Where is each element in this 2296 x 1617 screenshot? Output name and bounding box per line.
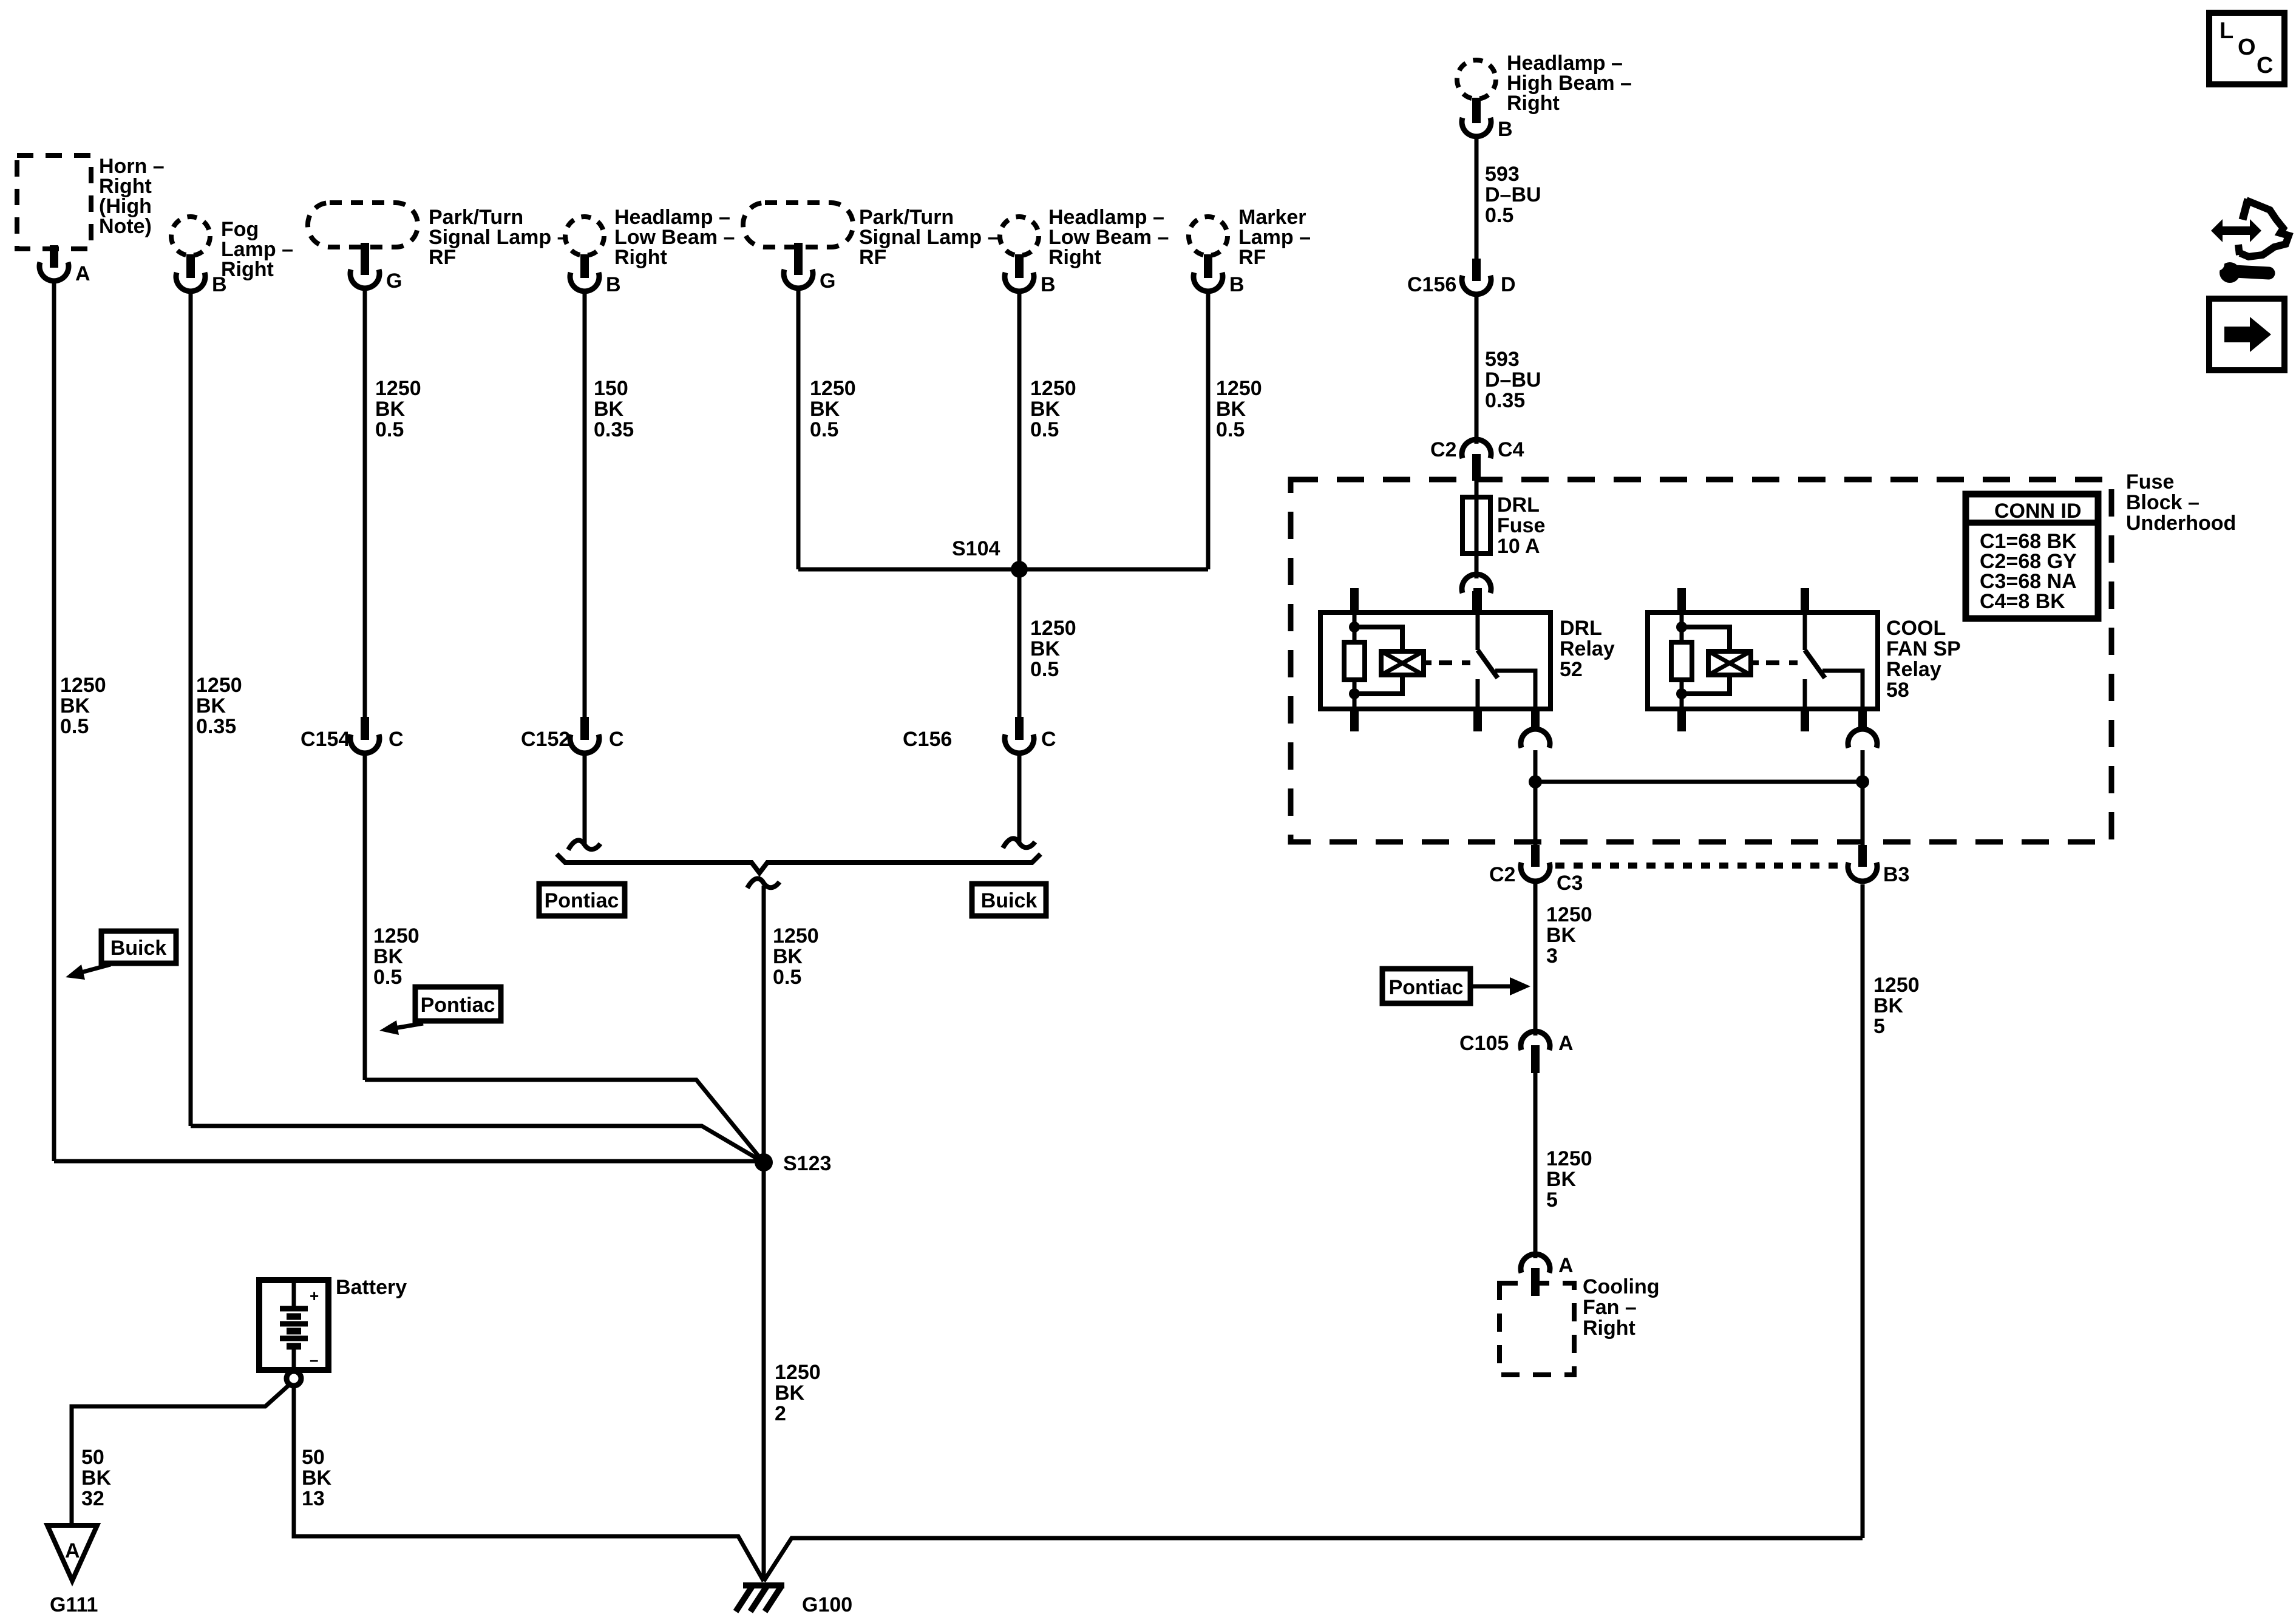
connector B (marker) — [1194, 273, 1223, 291]
connector B (fog) — [176, 273, 205, 291]
svg-text:1250: 1250 — [375, 377, 421, 400]
svg-text:C154: C154 — [301, 728, 350, 751]
marker lamp label — [1238, 206, 1311, 269]
junction S123 — [755, 1153, 773, 1171]
svg-text:RF: RF — [429, 246, 456, 269]
svg-text:G: G — [820, 269, 835, 293]
relay pin stub (DRL relay top) — [1472, 591, 1481, 612]
Pontiac callout box with arrow (right) — [1382, 969, 1530, 1003]
wire relay outputs tie — [1535, 780, 1863, 784]
wire battery to G100 — [294, 1386, 764, 1581]
svg-text:Block –: Block – — [2126, 491, 2199, 514]
svg-text:C152: C152 — [521, 728, 570, 751]
svg-text:B: B — [1229, 273, 1245, 296]
svg-text:BK: BK — [373, 945, 404, 968]
wire label 50 BK 32 — [81, 1446, 112, 1510]
svg-text:1250: 1250 — [1216, 377, 1262, 400]
wire B3 down right side — [1861, 884, 1865, 1538]
marker lamp RF dashed circle — [1189, 217, 1228, 256]
svg-text:Fan –: Fan – — [1583, 1296, 1637, 1319]
relay COOLFAN junction dot bottom — [1676, 688, 1687, 699]
svg-text:+: + — [310, 1287, 319, 1305]
wire horn horizontal to S123 — [54, 1159, 764, 1164]
relay COOLFAN switch common wire — [1803, 612, 1807, 650]
relay pin socket arc (DRL relay coil feed) — [1462, 574, 1491, 593]
wire fog horizontal — [191, 1126, 764, 1162]
connector C154 pin stub — [361, 717, 369, 740]
svg-text:Buick: Buick — [110, 937, 167, 960]
relay COOLFAN top pin 1 — [1677, 588, 1686, 612]
svg-text:0.5: 0.5 — [373, 966, 402, 989]
ground G111 symbol — [47, 1525, 97, 1581]
svg-text:0.5: 0.5 — [1030, 658, 1059, 681]
Pontiac callout box with arrow — [379, 987, 501, 1035]
svg-text:0.35: 0.35 — [196, 715, 236, 738]
wire label 593 D-BU 0.5 — [1485, 163, 1541, 227]
relay COOLFAN output socket arc — [1848, 729, 1877, 748]
park/turn 1 label — [429, 206, 569, 269]
high beam pin stub — [1472, 98, 1481, 123]
horn Horn-Right (High Note) dashed box — [17, 155, 91, 249]
wire fuse to relay pin arc — [1475, 554, 1479, 578]
svg-text:32: 32 — [81, 1487, 104, 1510]
svg-text:0.5: 0.5 — [1030, 418, 1059, 441]
wire B3 horizontal to G100 — [764, 1538, 1863, 1581]
connector B (low beam 2) — [1005, 273, 1034, 291]
wire DRL output down to C2 — [1533, 782, 1538, 847]
wire label 1250 BK 0.5 (below S104) — [1030, 617, 1076, 681]
svg-text:Right: Right — [614, 246, 667, 269]
wire S104 down to C156 — [1017, 569, 1022, 718]
svg-text:C2: C2 — [1489, 863, 1515, 886]
wire label 50 BK 13 — [302, 1446, 332, 1510]
svg-text:BK: BK — [1546, 924, 1577, 947]
headlamp high beam label — [1507, 52, 1632, 115]
svg-text:Right: Right — [221, 258, 274, 281]
svg-text:BK: BK — [60, 694, 90, 717]
fog lamp Fog Lamp-Right dashed circle — [171, 217, 210, 256]
wire low beam 2 vertical — [1017, 290, 1022, 569]
svg-text:C: C — [609, 728, 624, 751]
svg-text:1250: 1250 — [196, 674, 242, 697]
connector A (horn) — [39, 262, 69, 281]
connector C152 — [570, 734, 599, 753]
svg-text:Right: Right — [1507, 92, 1560, 115]
wire label 150 BK 0.35 — [594, 377, 634, 441]
wire park/turn 1 vertical lower — [363, 753, 367, 1080]
connector C156 D pin stub — [1472, 259, 1481, 281]
relay DRL box — [1320, 612, 1550, 709]
wire S123 to G100 — [762, 1162, 766, 1581]
connector C2/C3 — [1521, 863, 1550, 881]
svg-text:BK: BK — [1030, 637, 1061, 660]
svg-text:Fuse: Fuse — [2126, 470, 2174, 493]
svg-text:D–BU: D–BU — [1485, 368, 1541, 392]
svg-text:1250: 1250 — [773, 924, 819, 947]
svg-text:1250: 1250 — [810, 377, 856, 400]
svg-text:Pontiac: Pontiac — [421, 994, 495, 1017]
ground G100 symbol — [736, 1585, 784, 1612]
headlamp low beam right 2 dashed circle — [1000, 217, 1039, 256]
svg-text:A: A — [65, 1539, 80, 1562]
svg-text:1250: 1250 — [775, 1361, 821, 1384]
svg-text:5: 5 — [1546, 1188, 1558, 1212]
relay COOLFAN coil branch wires — [1682, 627, 1730, 694]
headlamp low beam 2 pin stub — [1015, 254, 1024, 278]
svg-text:50: 50 — [302, 1446, 325, 1469]
svg-text:–: – — [310, 1351, 318, 1369]
svg-text:3: 3 — [1546, 944, 1558, 968]
wire low beam 1 vertical — [583, 290, 587, 718]
svg-text:C3: C3 — [1557, 872, 1583, 895]
relay DRL switch contact wire — [1476, 679, 1480, 709]
relay DRL bottom pin 1 — [1350, 709, 1359, 731]
connector C156 pin stub (lower) — [1015, 717, 1024, 740]
relay DRL actuator dashed link — [1439, 660, 1470, 665]
junction S104 — [1011, 561, 1028, 578]
relay COOLFAN box — [1648, 612, 1878, 709]
svg-text:0.5: 0.5 — [1485, 204, 1513, 227]
relay COOLFAN resistor branch wire — [1680, 612, 1684, 642]
svg-text:13: 13 — [302, 1487, 325, 1510]
svg-text:BK: BK — [81, 1466, 112, 1490]
wire label 1250 BK 0.5 (marker) — [1216, 377, 1262, 441]
connector A (cooling fan) — [1521, 1254, 1550, 1273]
svg-text:BK: BK — [594, 398, 624, 421]
svg-text:B: B — [1041, 273, 1056, 296]
junction dot (DRL output row) — [1529, 775, 1542, 788]
svg-text:C: C — [1041, 728, 1056, 751]
svg-text:S123: S123 — [783, 1152, 831, 1175]
svg-text:S104: S104 — [952, 537, 1000, 560]
relay COOLFAN resistor — [1671, 642, 1692, 680]
headlamp low beam 2 label — [1048, 206, 1169, 269]
connector B (low beam 1) — [570, 273, 599, 291]
wire label 1250 BK 0.5 (park/turn 1) — [375, 377, 421, 441]
svg-text:D: D — [1501, 273, 1516, 296]
wire below C156 — [1017, 753, 1022, 842]
relay DRL resistor — [1344, 642, 1365, 680]
wire label 593 D-BU 0.35 — [1485, 348, 1541, 412]
wire marker vertical — [1206, 290, 1211, 569]
svg-text:C: C — [389, 728, 404, 751]
headlamp high beam right dashed circle — [1457, 60, 1496, 99]
wire label 1250 BK 0.5 (low beam 2) — [1030, 377, 1076, 441]
wire label 1250 BK 0.5 (center) — [773, 924, 819, 989]
svg-text:BK: BK — [775, 1381, 805, 1405]
relay DRL switch blade — [1478, 650, 1498, 678]
relay COOLFAN bottom pin 1 — [1677, 709, 1686, 731]
Buick callout box with arrow — [66, 931, 176, 980]
relay COOLFAN switch blade — [1805, 650, 1825, 678]
svg-text:1250: 1250 — [60, 674, 106, 697]
wire label 1250 BK 3 — [1546, 903, 1592, 968]
connector C152 pin stub — [580, 717, 589, 740]
svg-text:5: 5 — [1873, 1015, 1885, 1038]
relay DRL resistor branch wire — [1353, 612, 1357, 642]
relay DRL output wire — [1495, 671, 1535, 709]
park/turn signal lamp RF 2 dashed rounded box — [743, 203, 853, 247]
wire battery to G111 branch — [72, 1385, 290, 1525]
wire relay COOLFAN output down — [1861, 750, 1865, 782]
relay COOLFAN junction dot top — [1676, 622, 1687, 632]
relay DRL top pin 1 — [1350, 588, 1359, 612]
C3 dotted connector line — [1555, 863, 1844, 869]
wire park/turn 1 vertical upper — [363, 287, 367, 718]
svg-text:B: B — [606, 273, 621, 296]
wire label 1250 BK 5 (left) — [1546, 1147, 1592, 1212]
wire label 1250 BK 2 — [775, 1361, 821, 1425]
relay COOLFAN output wire — [1822, 671, 1863, 709]
relay COOLFAN switch contact wire — [1803, 679, 1807, 709]
wire label 1250 BK 0.5 (park/turn 2) — [810, 377, 856, 441]
svg-text:58: 58 — [1886, 679, 1909, 702]
svg-text:C156: C156 — [903, 728, 952, 751]
relay DRL output socket arc — [1521, 729, 1550, 748]
svg-text:1250: 1250 — [1030, 617, 1076, 640]
fuse block label — [2126, 470, 2236, 535]
service icon (part outline with wrench and arrows) — [2211, 199, 2289, 283]
svg-text:1250: 1250 — [373, 924, 419, 947]
connector C2 pin stub (bottom) — [1531, 845, 1540, 867]
svg-text:BK: BK — [196, 694, 226, 717]
svg-text:C156: C156 — [1407, 273, 1456, 296]
relay DRL label — [1560, 617, 1615, 681]
wire relay DRL output down — [1533, 750, 1538, 782]
park/turn 2 label — [859, 206, 999, 269]
connector C105 pin stub — [1531, 1045, 1540, 1073]
svg-text:C4=8 BK: C4=8 BK — [1980, 590, 2065, 613]
wire COOLFAN output down to B3 — [1861, 782, 1865, 847]
cooling fan right dashed box — [1500, 1283, 1574, 1375]
svg-text:0.5: 0.5 — [773, 966, 801, 989]
wire C2/C4 to fuse — [1475, 480, 1479, 499]
svg-text:1250: 1250 — [1873, 974, 1920, 997]
svg-text:FAN SP: FAN SP — [1886, 637, 1961, 660]
marker pin stub — [1204, 254, 1212, 278]
connector C156 (top) — [1462, 276, 1491, 294]
cooling fan label — [1583, 1275, 1660, 1340]
wire label 1250 BK 5 (right) — [1873, 974, 1920, 1038]
option splice curl (C152 wire end) — [568, 840, 600, 850]
svg-text:D–BU: D–BU — [1485, 183, 1541, 206]
svg-text:Note): Note) — [99, 215, 152, 238]
svg-text:Relay: Relay — [1886, 658, 1941, 681]
wire label 1250 BK 0.5 (lower left) — [373, 924, 419, 989]
svg-text:BK: BK — [1216, 398, 1246, 421]
svg-text:C: C — [2257, 53, 2273, 78]
fuse DRL 10A symbol — [1462, 497, 1490, 554]
park/turn 1 pin stub — [361, 243, 369, 275]
C2/C4 pin stub — [1472, 454, 1481, 481]
connector C154 — [350, 734, 379, 753]
park/turn signal lamp RF 1 dashed rounded box — [308, 203, 418, 247]
junction dot (COOLFAN output row) — [1856, 775, 1869, 788]
wire horn vertical — [52, 280, 56, 1161]
wire below C152 — [583, 753, 587, 844]
fuse DRL label — [1497, 493, 1545, 558]
svg-text:COOL: COOL — [1886, 617, 1946, 640]
connector B (high beam) — [1462, 118, 1491, 137]
svg-text:0.35: 0.35 — [1485, 389, 1525, 412]
svg-text:CONN ID: CONN ID — [1994, 500, 2082, 523]
Buick option box (under brace) — [972, 884, 1046, 916]
svg-text:Fuse: Fuse — [1497, 514, 1545, 537]
svg-text:C105: C105 — [1459, 1032, 1509, 1055]
svg-text:BK: BK — [375, 398, 406, 421]
relay DRL bottom pin 3 (output) — [1531, 709, 1540, 731]
relay COOLFAN resistor lower wire — [1680, 680, 1684, 709]
wire high beam to C156 — [1475, 135, 1479, 261]
battery negative terminal circle — [287, 1371, 301, 1386]
svg-text:DRL: DRL — [1497, 493, 1540, 517]
svg-text:BK: BK — [1546, 1168, 1577, 1191]
svg-text:RF: RF — [1238, 246, 1266, 269]
svg-text:0.5: 0.5 — [60, 715, 89, 738]
headlamp low beam 1 label — [614, 206, 735, 269]
wire park/turn 1 horizontal to S123 — [365, 1080, 764, 1162]
svg-text:Pontiac: Pontiac — [545, 889, 619, 912]
svg-text:Buick: Buick — [981, 889, 1038, 912]
relay DRL junction dot top — [1349, 622, 1360, 632]
relay DRL switch common wire — [1476, 612, 1480, 650]
svg-text:BK: BK — [773, 945, 803, 968]
fog lamp label — [221, 218, 293, 281]
relay COOLFAN coil crossed box — [1708, 651, 1751, 675]
svg-text:BK: BK — [1873, 994, 1904, 1017]
connector B3 — [1848, 863, 1877, 881]
relay COOLFAN top pin 2 — [1801, 588, 1809, 612]
horn pin stub — [50, 245, 58, 268]
svg-text:1250: 1250 — [1546, 903, 1592, 926]
Pontiac option box (under brace) — [539, 884, 625, 916]
svg-text:Right: Right — [1583, 1317, 1635, 1340]
svg-text:Right: Right — [1048, 246, 1101, 269]
wire C3 down to C105 — [1533, 881, 1538, 1036]
CONN ID table — [1966, 494, 2098, 619]
svg-text:150: 150 — [594, 377, 628, 400]
horn label — [99, 155, 165, 238]
connector G (park/turn 1) — [350, 269, 379, 288]
connector C105 — [1521, 1031, 1550, 1050]
svg-text:G100: G100 — [802, 1593, 852, 1616]
svg-text:B: B — [1498, 118, 1513, 141]
option splice curl (C156 wire end) — [1003, 838, 1035, 848]
svg-text:RF: RF — [859, 246, 886, 269]
relay DRL bottom pin 2 — [1473, 709, 1482, 731]
svg-text:B3: B3 — [1883, 863, 1909, 886]
relay DRL coil crossed box — [1381, 651, 1424, 675]
connector G (park/turn 2) — [784, 269, 813, 288]
relay COOLFAN bottom pin 3 (output) — [1858, 709, 1867, 731]
svg-text:Pontiac: Pontiac — [1389, 976, 1464, 999]
svg-text:BK: BK — [302, 1466, 332, 1490]
svg-text:1250: 1250 — [1030, 377, 1076, 400]
svg-text:0.5: 0.5 — [1216, 418, 1245, 441]
svg-text:0.5: 0.5 — [810, 418, 838, 441]
svg-text:C2: C2 — [1430, 438, 1456, 461]
relay DRL coil actuator stub — [1424, 660, 1432, 665]
svg-text:BK: BK — [810, 398, 840, 421]
wire C156 to C2/C4 — [1475, 293, 1479, 444]
next-page arrow icon box — [2209, 299, 2284, 370]
svg-text:10 A: 10 A — [1497, 535, 1540, 558]
wire horizontal S104 tie — [798, 568, 1208, 572]
svg-text:0.5: 0.5 — [375, 418, 404, 441]
svg-text:A: A — [1558, 1254, 1574, 1277]
svg-text:593: 593 — [1485, 348, 1520, 371]
svg-text:Cooling: Cooling — [1583, 1275, 1660, 1298]
option splice curl (brace output) — [747, 878, 779, 888]
svg-text:2: 2 — [775, 1402, 786, 1425]
svg-text:C4: C4 — [1498, 438, 1524, 461]
relay DRL top pin 2 — [1473, 588, 1482, 612]
svg-text:L: L — [2220, 18, 2233, 44]
connector C156 (lower) — [1005, 734, 1034, 753]
svg-text:50: 50 — [81, 1446, 104, 1469]
svg-text:DRL: DRL — [1560, 617, 1602, 640]
relay DRL coil branch wires — [1354, 627, 1402, 694]
svg-text:O: O — [2238, 35, 2256, 60]
headlamp low beam 1 pin stub — [580, 254, 589, 278]
relay DRL resistor lower wire — [1353, 680, 1357, 709]
wire fog vertical — [189, 290, 193, 1126]
svg-text:593: 593 — [1485, 163, 1520, 186]
svg-text:Underhood: Underhood — [2126, 512, 2236, 535]
options brace (Pontiac/Buick split) — [557, 854, 1041, 873]
connector A pin stub (cooling fan) — [1531, 1268, 1540, 1296]
LOC icon box — [2209, 13, 2284, 84]
wire label 1250 BK 0.35 (fog) — [196, 674, 242, 738]
relay COOLFAN actuator dashed link — [1766, 660, 1798, 665]
relay COOLFAN coil actuator stub — [1751, 660, 1759, 665]
wire brace to S123 — [762, 886, 766, 1162]
relay COOLFAN bottom pin 2 — [1801, 709, 1809, 731]
svg-text:B: B — [212, 273, 227, 296]
relay DRL junction dot bottom — [1349, 688, 1360, 699]
wire park/turn 2 vertical — [796, 287, 801, 569]
svg-text:1250: 1250 — [1546, 1147, 1592, 1170]
connector C2/C4 — [1462, 439, 1491, 458]
svg-text:A: A — [75, 262, 90, 285]
svg-text:G111: G111 — [50, 1593, 98, 1616]
park/turn 2 pin stub — [794, 243, 803, 275]
svg-text:52: 52 — [1560, 658, 1583, 681]
svg-text:BK: BK — [1030, 398, 1061, 421]
wire C105 down to cooling fan — [1533, 1073, 1538, 1258]
relay COOLFAN label — [1886, 617, 1961, 702]
svg-text:Relay: Relay — [1560, 637, 1615, 660]
svg-text:Battery: Battery — [336, 1276, 407, 1299]
headlamp low beam right 1 dashed circle — [565, 217, 604, 256]
fuse block underhood dashed box — [1291, 480, 2111, 842]
svg-text:0.35: 0.35 — [594, 418, 634, 441]
svg-text:A: A — [1558, 1032, 1574, 1055]
svg-text:G: G — [386, 269, 402, 293]
wire label 1250 BK 0.5 (horn) — [60, 674, 106, 738]
connector B3 pin stub — [1858, 845, 1867, 867]
battery — [259, 1280, 328, 1370]
fog pin stub — [186, 254, 195, 278]
